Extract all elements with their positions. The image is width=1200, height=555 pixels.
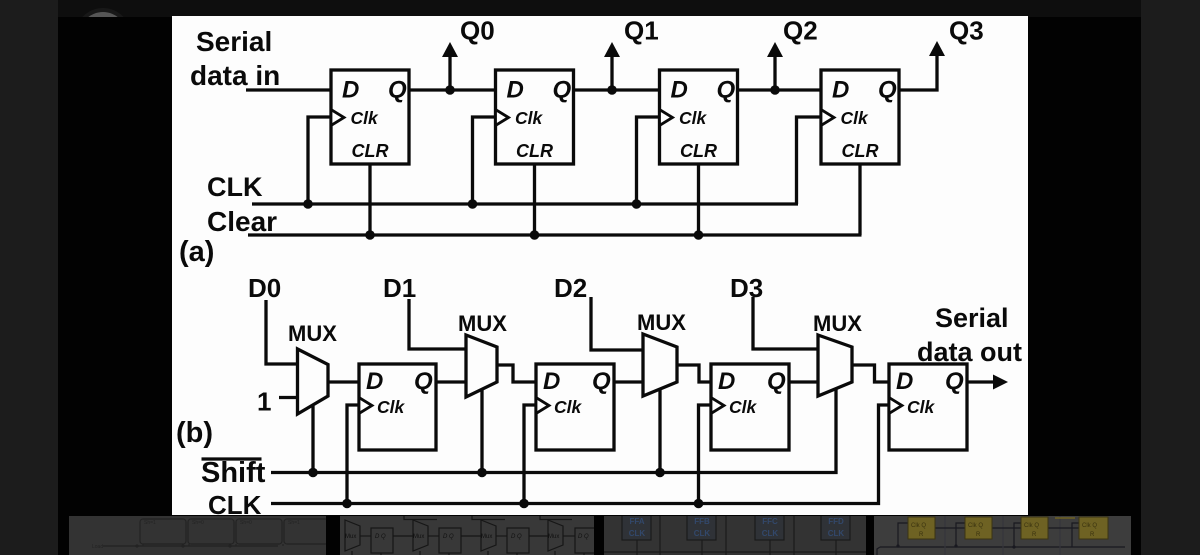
svg-text:Clear: Clear — [207, 206, 277, 237]
svg-text:CLK: CLK — [207, 172, 263, 202]
svg-text:FFD: FFD — [828, 517, 844, 526]
svg-text:Load: Load — [92, 544, 103, 550]
svg-text:MUX: MUX — [637, 310, 686, 335]
svg-text:Q2: Q2 — [783, 16, 818, 46]
svg-text:Clk: Clk — [907, 397, 936, 417]
svg-text:FFB: FFB — [694, 517, 710, 526]
svg-text:Sh=0: Sh=0 — [240, 520, 252, 526]
svg-text:Q: Q — [767, 368, 786, 395]
svg-text:Clk Q: Clk Q — [1024, 523, 1039, 529]
svg-text:D: D — [366, 368, 383, 395]
svg-text:D: D — [507, 77, 524, 104]
svg-text:data out: data out — [917, 337, 1022, 367]
svg-text:D Q: D Q — [375, 534, 386, 540]
svg-text:CLR: CLR — [516, 141, 553, 161]
svg-text:D3: D3 — [730, 273, 763, 303]
svg-text:R: R — [1090, 532, 1095, 538]
svg-text:D2: D2 — [554, 273, 587, 303]
svg-text:Mux: Mux — [345, 534, 356, 540]
svg-text:Q: Q — [592, 368, 611, 395]
svg-text:Clk: Clk — [351, 108, 380, 128]
svg-text:MUX: MUX — [813, 311, 862, 336]
svg-text:Q: Q — [553, 77, 572, 104]
svg-text:Clk Q: Clk Q — [911, 523, 926, 529]
svg-text:MUX: MUX — [458, 311, 507, 336]
svg-text:CLK: CLK — [629, 529, 646, 538]
svg-text:Sh=1: Sh=1 — [288, 520, 300, 526]
svg-text:Mux: Mux — [481, 534, 492, 540]
svg-text:Sh=0: Sh=0 — [192, 520, 204, 526]
svg-text:D0: D0 — [248, 273, 281, 303]
svg-text:Serial: Serial — [196, 26, 272, 57]
svg-text:CLK: CLK — [694, 529, 711, 538]
svg-text:Clk: Clk — [515, 108, 544, 128]
svg-text:MUX: MUX — [288, 321, 337, 346]
svg-text:Serial: Serial — [935, 303, 1009, 333]
svg-text:Clk: Clk — [679, 108, 708, 128]
svg-text:Mux: Mux — [548, 534, 559, 540]
svg-text:Q3: Q3 — [949, 16, 984, 46]
svg-text:Q1: Q1 — [624, 16, 659, 46]
svg-text:CLK: CLK — [208, 490, 262, 515]
svg-text:D Q: D Q — [443, 534, 454, 540]
svg-text:(b): (b) — [176, 417, 213, 449]
svg-text:D: D — [896, 368, 913, 395]
svg-text:D Q: D Q — [578, 534, 589, 540]
svg-text:FFA: FFA — [629, 517, 644, 526]
svg-text:Clk Q: Clk Q — [968, 523, 983, 529]
svg-text:Clk Q: Clk Q — [1082, 523, 1097, 529]
svg-text:D: D — [543, 368, 560, 395]
svg-text:Sh=1: Sh=1 — [144, 520, 156, 526]
svg-text:R: R — [976, 532, 981, 538]
svg-text:Q: Q — [388, 77, 407, 104]
svg-text:data in: data in — [190, 60, 280, 91]
svg-text:FFC: FFC — [762, 517, 778, 526]
svg-text:Q: Q — [717, 77, 736, 104]
svg-text:Clk: Clk — [377, 397, 406, 417]
svg-text:Q: Q — [414, 368, 433, 395]
svg-text:1: 1 — [257, 387, 271, 417]
svg-text:D: D — [342, 77, 359, 104]
svg-text:Clk: Clk — [554, 397, 583, 417]
svg-text:D: D — [832, 77, 849, 104]
svg-text:Q: Q — [878, 77, 897, 104]
svg-text:Clk: Clk — [729, 397, 758, 417]
svg-text:Q0: Q0 — [460, 16, 495, 46]
svg-text:D1: D1 — [383, 273, 416, 303]
svg-text:R: R — [1032, 532, 1037, 538]
svg-text:(a): (a) — [179, 236, 214, 268]
svg-text:D: D — [671, 77, 688, 104]
svg-text:D: D — [718, 368, 735, 395]
svg-text:Shift: Shift — [201, 457, 266, 489]
svg-text:Q: Q — [945, 368, 964, 395]
svg-text:CLR: CLR — [352, 141, 389, 161]
svg-text:CLR: CLR — [680, 141, 717, 161]
svg-text:D Q: D Q — [511, 534, 522, 540]
svg-text:CLK: CLK — [762, 529, 779, 538]
svg-text:R: R — [919, 532, 924, 538]
svg-text:Mux: Mux — [413, 534, 424, 540]
svg-text:CLR: CLR — [842, 141, 879, 161]
svg-text:CLK: CLK — [828, 529, 845, 538]
svg-text:Clk: Clk — [841, 108, 870, 128]
